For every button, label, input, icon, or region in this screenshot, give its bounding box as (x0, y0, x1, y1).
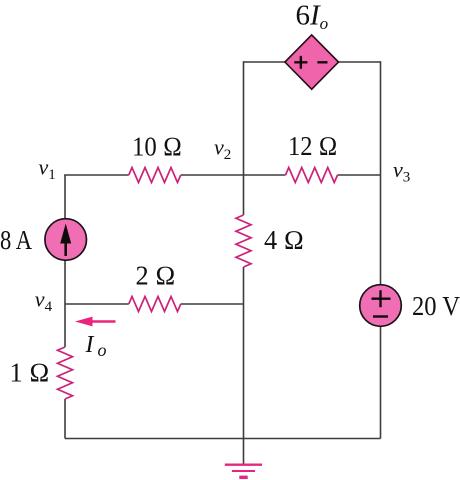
20V plus sign (372, 290, 391, 307)
diamond minus sign (317, 61, 327, 63)
wire: diamond row right segment (338, 61, 380, 63)
resistor R 10-ohm (129, 168, 181, 183)
svg-text:1 Ω: 1 Ω (10, 358, 50, 388)
resistor R 4-ohm (vertical) (236, 215, 251, 267)
wire: center vertical 4-ohm bottom to bottom rail (243, 267, 245, 439)
Io arrow (pointing left) (91, 320, 116, 323)
svg-text:2 Ω: 2 Ω (136, 260, 176, 290)
wire: top rail 12-ohm to v3 (338, 174, 381, 176)
wire: right vertical v3 to 20V top (380, 175, 382, 285)
svg-text:v1: v1 (39, 155, 56, 184)
svg-text:8 A: 8 A (0, 225, 32, 255)
current source arrow (64, 242, 67, 256)
wire: mid rail 2-ohm to center vertical (181, 303, 244, 305)
wire: top rail v1 to 10-ohm (64, 174, 129, 176)
resistor R 1-ohm (vertical) (58, 347, 73, 399)
current source 8A (circle) (45, 219, 87, 261)
ground (225, 464, 262, 466)
svg-text:12 Ω: 12 Ω (288, 131, 338, 161)
wire: mid rail v4 to 2-ohm (65, 303, 129, 305)
wire: top rail 10-ohm to 12-ohm through node v2 (181, 174, 286, 176)
wire: bottom rail (65, 438, 381, 440)
wire: diamond row left segment (244, 61, 286, 63)
resistor R 12-ohm (286, 168, 338, 183)
wire: left vertical 1-ohm bottom to bottom rail (64, 399, 66, 439)
wire: center vertical v2 to 4-ohm top (243, 175, 245, 215)
wire: vertical from diamond-right down to node v3 (380, 61, 382, 175)
svg-text:v3: v3 (393, 157, 410, 186)
wire: right vertical 20V bottom to bottom rail (380, 326, 382, 438)
svg-text:v4: v4 (35, 287, 53, 316)
diamond plus sign (294, 56, 307, 69)
svg-text:10 Ω: 10 Ω (132, 132, 182, 162)
svg-text:v2: v2 (214, 135, 231, 164)
wire: ground stem (243, 439, 245, 465)
svg-text:Io: Io (85, 332, 107, 360)
wire: left vertical 8A bottom to 1-ohm top (64, 260, 66, 347)
resistor R 2-ohm (129, 297, 181, 312)
svg-text:4 Ω: 4 Ω (264, 225, 304, 255)
wire: left vertical v1 to 8A source top (64, 175, 66, 219)
svg-text:6Io: 6Io (296, 0, 329, 33)
dependent source 6Io (diamond) (285, 35, 339, 89)
voltage source 20V (circle) (360, 285, 402, 327)
wire: vertical from diamond-left down to node v2 (243, 61, 245, 175)
svg-text:20 V: 20 V (412, 291, 460, 321)
20V minus sign (373, 315, 388, 317)
